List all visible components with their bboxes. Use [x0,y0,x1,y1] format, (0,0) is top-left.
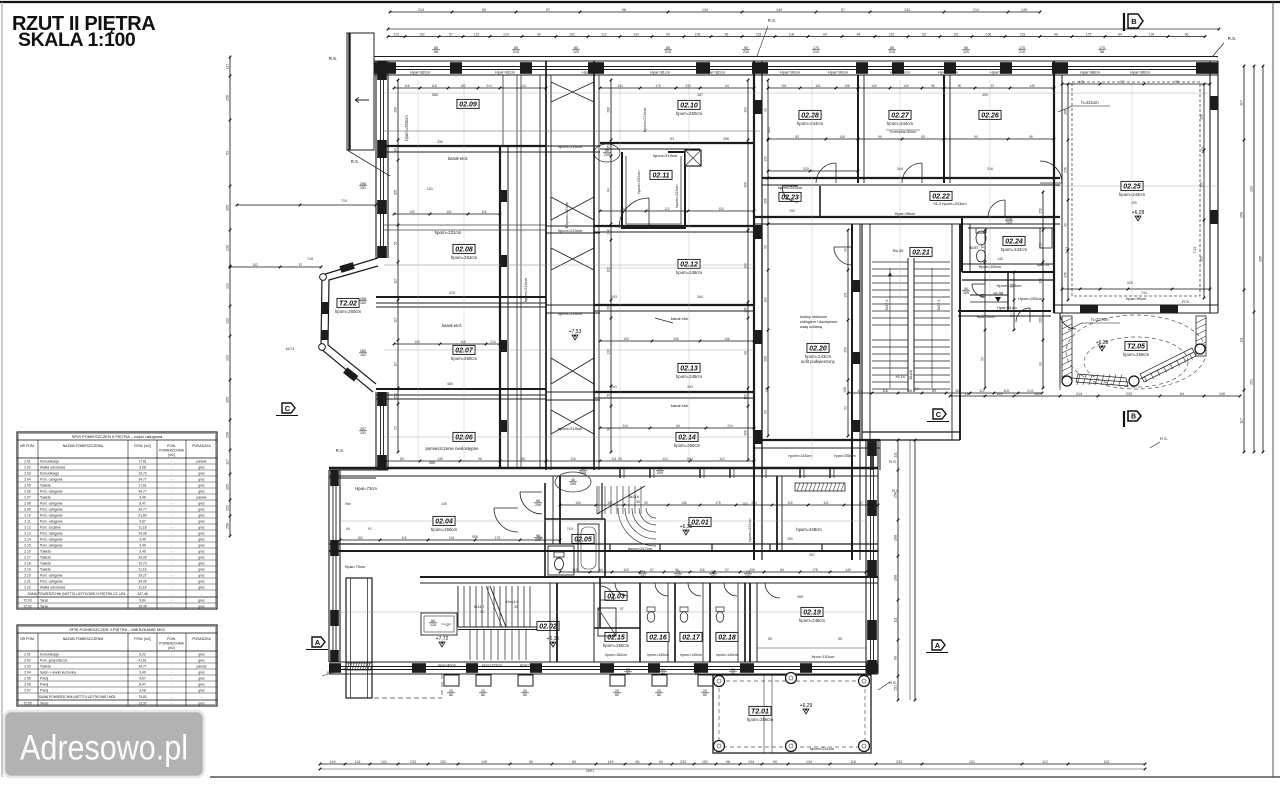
svg-text:Hpar=82cm: Hpar=82cm [495,71,515,75]
svg-text:106: 106 [789,32,795,36]
svg-text:198: 198 [843,387,847,393]
svg-text:Pom. usługowe: Pom. usługowe [40,538,63,542]
svg-text:02.21: 02.21 [912,250,930,257]
svg-text:409: 409 [982,93,988,97]
svg-text:53: 53 [394,242,398,246]
svg-text:151: 151 [360,431,366,435]
svg-text:151: 151 [226,505,230,511]
svg-text:gres: gres [198,568,205,572]
svg-text:Taras: Taras [40,605,48,609]
svg-text:9,67: 9,67 [139,677,146,681]
svg-text:258: 258 [226,432,230,438]
svg-text:Toaleta: Toaleta [40,550,51,554]
svg-text:Pom. usługowe: Pom. usługowe [40,502,63,506]
svg-text:34,77: 34,77 [138,508,146,512]
corridor curved lines [618,508,656,546]
svg-text:91,2 hpom=243cm: 91,2 hpom=243cm [933,201,967,206]
svg-text:106: 106 [449,536,455,540]
svg-text:364: 364 [697,295,703,299]
svg-text:134: 134 [623,337,629,341]
svg-text:90: 90 [659,760,663,764]
svg-text:NAZWA POMIESZCZENIA: NAZWA POMIESZCZENIA [63,444,104,448]
svg-text:34,77: 34,77 [138,478,146,482]
svg-text:116: 116 [460,340,465,344]
svg-text:02.09: 02.09 [459,102,477,109]
svg-text:POSADZKA: POSADZKA [192,444,211,448]
svg-text:hpom=231cm: hpom=231cm [748,518,752,541]
svg-text:214: 214 [1027,389,1033,393]
svg-text:83: 83 [795,135,799,139]
svg-text:R.S.: R.S. [889,680,897,685]
vertical chain x768 [764,79,770,438]
svg-text:233: 233 [1126,392,1132,396]
parapet step [329,470,388,491]
svg-text:96: 96 [521,457,525,461]
svg-text:149: 149 [409,210,415,214]
svg-text:152: 152 [360,301,366,305]
svg-text:64: 64 [780,568,784,572]
svg-text:117: 117 [1240,418,1244,424]
svg-text:151: 151 [1250,379,1254,385]
svg-text:Rw: Rw [345,502,351,506]
vertical chain x985 [981,229,987,390]
svg-text:hpom=219cm: hpom=219cm [558,228,583,233]
svg-text:64: 64 [857,32,861,36]
svg-text:-: - [171,592,172,596]
svg-text:hpom=250cm: hpom=250cm [431,527,458,532]
svg-text:133: 133 [226,283,230,289]
svg-text:210: 210 [813,50,819,54]
svg-text:90: 90 [894,656,898,660]
svg-text:209: 209 [963,291,969,295]
svg-text:149: 149 [903,84,909,88]
svg-text:115: 115 [623,568,628,572]
svg-text:152: 152 [446,210,452,214]
svg-text:190: 190 [789,209,795,213]
svg-text:8,47: 8,47 [139,502,146,506]
svg-text:R.S.: R.S. [768,18,776,23]
room 02.15 [598,608,629,657]
svg-text:112: 112 [662,457,667,461]
wc rooms 16-18 [647,583,738,657]
svg-text:152: 152 [569,32,575,36]
corridor door arcs [782,186,1005,217]
chain y590 [559,568,868,574]
south outer wall [329,662,878,674]
svg-text:96: 96 [878,135,882,139]
svg-text:hpom=244cm: hpom=244cm [797,121,824,126]
section marker B top [1124,13,1143,31]
svg-text:149: 149 [776,8,782,12]
svg-text:258: 258 [1039,208,1043,214]
door 02.11 [619,198,649,228]
svg-text:Komunikacja: Komunikacja [40,472,59,476]
svg-text:112: 112 [664,207,669,211]
svg-text:-: - [171,683,172,687]
svg-text:gres: gres [198,478,205,482]
corridor chain y540 [339,536,562,542]
svg-text:R.S.: R.S. [1228,36,1237,41]
svg-text:Pom. socjalne: Pom. socjalne [40,526,61,530]
svg-text:74,5: 74,5 [567,527,574,531]
svg-text:53: 53 [226,151,230,155]
svg-text:116: 116 [850,760,856,764]
svg-text:305: 305 [1200,182,1204,188]
wall 02.12/13 [594,305,754,323]
svg-text:Toaleta: Toaleta [40,556,51,560]
svg-text:gres: gres [198,671,205,675]
svg-text:R.S.: R.S. [1182,299,1190,304]
svg-text:Hpar=82cm: Hpar=82cm [705,71,725,75]
svg-text:POW.: POW. [167,637,176,641]
room T2.05 [1123,341,1150,357]
svg-text:hpom=258cm: hpom=258cm [1123,352,1150,357]
svg-text:Pom. usługowe: Pom. usługowe [40,544,63,548]
top outer wall [372,57,1218,76]
svg-text:Hpar=90cm: Hpar=90cm [780,71,800,75]
svg-text:53: 53 [981,357,985,361]
svg-text:152: 152 [889,32,895,36]
window sill labels [432,46,1106,54]
svg-text:133: 133 [744,394,748,400]
svg-text:-: - [171,460,172,464]
svg-text:112: 112 [601,32,606,36]
svg-text:205: 205 [1006,221,1012,225]
svg-text:C: C [285,404,291,413]
svg-text:363: 363 [687,385,693,389]
svg-text:236: 236 [226,245,230,251]
svg-text:480: 480 [447,382,453,386]
note h=237cm [1068,317,1120,330]
svg-text:87: 87 [620,607,624,611]
svg-text:[m2]: [m2] [168,453,174,457]
svg-text:R.S.: R.S. [351,159,359,164]
svg-text:149: 149 [871,84,877,88]
corridor door arc big [520,492,542,514]
svg-text:34,28: 34,28 [138,556,146,560]
svg-text:34,28: 34,28 [138,580,146,584]
svg-text:gres: gres [198,556,205,560]
svg-text:175: 175 [1086,32,1092,36]
bay window T2.02 [319,258,378,392]
svg-text:64: 64 [1180,392,1184,396]
svg-text:133: 133 [1039,243,1043,249]
elevation +7.72 [436,636,449,647]
column bases [444,675,713,697]
svg-text:80: 80 [626,672,630,676]
svg-text:57: 57 [299,263,303,267]
svg-text:B hpom=251cm: B hpom=251cm [565,202,569,229]
interior chain y140 right [767,135,1056,141]
elevation +6.35 corr [680,524,693,535]
room 02.11 [622,152,685,228]
svg-text:-: - [171,580,172,584]
svg-text:2.07: 2.07 [24,689,31,693]
svg-text:111: 111 [611,457,616,461]
svg-text:151: 151 [360,186,366,190]
interior chain y84 25 [1061,80,1212,86]
svg-text:panele: panele [197,460,207,464]
wall under 02.09 [384,146,546,161]
svg-text:152: 152 [460,84,466,88]
svg-text:+6,28: +6,28 [1132,210,1145,216]
svg-text:305: 305 [1259,256,1263,262]
svg-text:9x14,7: 9x14,7 [474,605,485,609]
svg-text:141: 141 [745,574,751,578]
svg-text:96: 96 [1175,80,1179,84]
middle right wall [754,61,762,470]
svg-text:2.14: 2.14 [24,538,31,542]
stacked labels left [286,182,367,435]
svg-text:478: 478 [449,291,455,295]
svg-text:83: 83 [636,760,640,764]
svg-text:210: 210 [889,50,895,54]
svg-text:-: - [171,496,172,500]
room 02.04 [346,502,478,539]
svg-text:11,18: 11,18 [138,568,146,572]
svg-text:120: 120 [430,623,436,627]
svg-text:146: 146 [997,257,1003,261]
svg-text:POW. [m2]: POW. [m2] [134,637,150,641]
svg-text:13,37: 13,37 [138,702,146,706]
inner dimension chain C [847,389,1044,395]
svg-text:T2.01: T2.01 [751,709,769,716]
svg-text:-: - [171,556,172,560]
svg-text:53: 53 [844,406,848,410]
svg-text:106: 106 [695,32,701,36]
svg-text:9,22: 9,22 [139,653,146,657]
svg-text:90: 90 [1064,223,1068,227]
svg-text:-: - [171,574,172,578]
svg-text:kanał etol.: kanał etol. [442,323,462,328]
svg-text:141: 141 [640,574,646,578]
svg-text:Toaleta: Toaleta [40,496,51,500]
wall 02.27/26 [944,75,950,183]
svg-text:149: 149 [845,568,851,572]
svg-text:-: - [171,526,172,530]
svg-text:112: 112 [719,457,724,461]
section marker A right [926,640,948,653]
svg-text:-: - [171,544,172,548]
svg-text:-: - [171,586,172,590]
svg-text:90: 90 [644,501,648,505]
svg-text:gres: gres [198,538,205,542]
svg-text:2.10: 2.10 [24,514,31,518]
svg-text:83: 83 [482,8,486,12]
svg-text:93: 93 [670,137,674,141]
svg-text:Komunikacja: Komunikacja [40,460,59,464]
svg-text:214: 214 [727,424,733,428]
svg-text:2.03: 2.03 [24,665,31,669]
svg-text:96: 96 [908,389,912,393]
svg-text:2.06: 2.06 [24,490,31,494]
beam line 02.08 [384,225,546,235]
wall 02.12 top [594,226,754,232]
svg-text:2.02: 2.02 [24,659,31,663]
svg-text:29,27: 29,27 [138,574,146,578]
svg-text:90: 90 [529,760,533,764]
room 02.02 [474,600,559,631]
pipe symbol 1 [594,144,620,162]
svg-text:116: 116 [718,207,723,211]
vertical chain x1204 [1200,83,1206,300]
svg-text:Toaleta: Toaleta [40,665,51,669]
svg-text:116: 116 [570,457,575,461]
svg-text:Hpar=81cm: Hpar=81cm [650,71,670,75]
svg-text:hpom=248cm: hpom=248cm [799,618,826,623]
vertical chain x398 [394,79,400,454]
svg-text:hpom=250cm: hpom=250cm [674,443,701,448]
svg-text:90: 90 [394,148,398,152]
svg-text:2.08: 2.08 [24,502,31,506]
svg-text:90: 90 [764,108,768,112]
svg-text:236: 236 [744,307,748,313]
svg-text:L81: L81 [427,187,433,191]
svg-text:64: 64 [1118,32,1122,36]
svg-text:gres: gres [198,586,205,590]
dim 02.25 bottom [1061,281,1212,301]
svg-text:15,49: 15,49 [138,605,146,609]
svg-text:POW.: POW. [167,444,176,448]
svg-text:9x17,4: 9x17,4 [937,300,941,311]
section marker B bottom [1124,411,1141,427]
svg-text:R.S.: R.S. [329,56,338,61]
top-left projection [347,33,390,176]
svg-text:305: 305 [1200,256,1204,262]
svg-text:-: - [201,695,202,699]
svg-text:116: 116 [882,389,888,393]
svg-text:gres: gres [198,520,205,524]
wall piers x500 [500,190,507,432]
svg-text:kanał etol.: kanał etol. [671,403,689,408]
svg-text:POWIERZCHNIA: POWIERZCHNIA [159,449,185,453]
svg-text:233: 233 [896,760,902,764]
partition labels [624,570,752,676]
svg-text:55: 55 [838,637,842,641]
wall 02.07/02.06 [376,389,546,399]
svg-text:90: 90 [773,760,777,764]
svg-text:64: 64 [607,188,611,192]
svg-text:02.23: 02.23 [781,195,799,202]
svg-text:Klatka schodowa: Klatka schodowa [40,466,65,470]
svg-text:2.05: 2.05 [24,484,31,488]
label R.S. x1160 [1150,436,1168,448]
svg-text:02.01: 02.01 [691,520,709,527]
svg-text:120: 120 [573,50,579,54]
corridor 02.01 [628,502,793,551]
svg-text:268: 268 [607,107,611,113]
svg-text:214: 214 [503,32,509,36]
wall x560 [553,476,560,544]
svg-text:2.22: 2.22 [24,586,31,590]
svg-text:280: 280 [787,537,793,541]
svg-text:53: 53 [394,426,398,430]
label R.S. 5 [1182,299,1190,304]
elevation +6.14 [895,375,919,391]
svg-text:gres: gres [198,683,205,687]
svg-text:Hpar=88cm: Hpar=88cm [1130,71,1150,75]
svg-text:209: 209 [535,538,541,542]
svg-text:SUMA POWIERZCHNI (NETTO) UŻYTK: SUMA POWIERZCHNI (NETTO) UŻYTKOWEJ M03 [39,694,116,699]
label R.S. x770 [757,18,776,56]
svg-text:7,22: 7,22 [1193,247,1197,254]
svg-text:hpom=250cm: hpom=250cm [676,111,703,116]
svg-text:10x14,6: 10x14,6 [506,600,519,604]
svg-text:101: 101 [823,501,829,505]
svg-text:2.18: 2.18 [24,562,31,566]
svg-text:151: 151 [894,685,898,691]
elevation 02.25 [1132,210,1145,221]
door 02.04 [494,508,518,532]
vertical chain x898 [894,439,900,702]
svg-text:02.19: 02.19 [803,610,821,617]
svg-text:3,49: 3,49 [139,550,146,554]
svg-text:-: - [171,490,172,494]
svg-text:Pom. usługowe: Pom. usługowe [40,520,63,524]
svg-text:117: 117 [1240,100,1244,106]
label R.S. 2 [351,159,359,164]
svg-text:02.14: 02.14 [678,435,696,442]
svg-text:210: 210 [1019,50,1025,54]
svg-text:149: 149 [1078,80,1084,84]
svg-text:90: 90 [974,135,978,139]
svg-text:Hpor=152cm: Hpor=152cm [482,664,502,668]
svg-text:64: 64 [823,32,827,36]
svg-text:sufit podwieszony: sufit podwieszony [801,359,836,364]
svg-text:115: 115 [1003,389,1009,393]
svg-text:Toaleta: Toaleta [40,562,51,566]
svg-text:hpom=219cm: hpom=219cm [653,153,678,158]
svg-text:POSADZKA: POSADZKA [192,637,211,641]
svg-text:80: 80 [449,693,453,697]
svg-text:117: 117 [226,459,230,465]
svg-text:19,73: 19,73 [138,562,146,566]
interior chain y88 right [767,84,1056,90]
wall 02.10 bottom [600,143,754,158]
svg-text:kanał etol.: kanał etol. [448,156,468,161]
svg-text:02.16: 02.16 [649,635,667,642]
svg-text:117: 117 [1010,312,1014,317]
svg-text:02.04: 02.04 [435,519,453,526]
svg-text:Hpom=283cm: Hpom=283cm [1018,297,1042,301]
room 02.21 [885,247,941,379]
svg-text:83: 83 [400,457,404,461]
svg-text:hpom=219cm: hpom=219cm [558,144,583,149]
svg-text:SPIS POMIESZCZEŃ II PIĘTRA – c: SPIS POMIESZCZEŃ II PIĘTRA – część usług… [72,434,163,439]
svg-text:152: 152 [702,760,708,764]
label R.S. 6 [878,680,897,690]
svg-text:152: 152 [357,536,363,540]
svg-text:02.28: 02.28 [801,113,819,120]
svg-text:-: - [171,671,172,675]
svg-text:134: 134 [617,84,623,88]
svg-text:Hpar=90cm: Hpar=90cm [938,71,958,75]
svg-text:117: 117 [226,64,230,70]
svg-text:gres: gres [198,574,205,578]
right dimension chain 3 [1259,65,1265,454]
svg-text:gres: gres [198,526,205,530]
svg-text:84: 84 [346,527,350,531]
svg-text:+7,72: +7,72 [436,636,449,642]
room 02.19 [757,583,866,659]
svg-text:SUMA POWIERZCHNI (NETTO) UŻYTK: SUMA POWIERZCHNI (NETTO) UŻYTKOWEJ II PI… [27,591,126,596]
dim 02.25 sides [1065,147,1205,254]
svg-text:83: 83 [921,135,925,139]
svg-text:233: 233 [756,32,762,36]
svg-text:-: - [171,466,172,470]
svg-text:115: 115 [401,536,406,540]
svg-text:57: 57 [1120,80,1124,84]
